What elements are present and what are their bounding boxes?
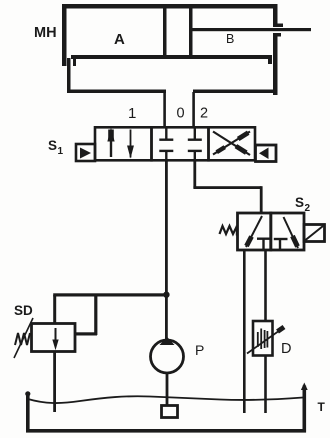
- svg-text:S: S: [48, 138, 57, 153]
- svg-text:T: T: [318, 400, 326, 414]
- svg-text:A: A: [114, 31, 125, 48]
- svg-text:0: 0: [177, 106, 185, 122]
- svg-text:SD: SD: [14, 303, 33, 318]
- svg-text:1: 1: [58, 146, 64, 157]
- svg-text:MH: MH: [34, 25, 57, 41]
- svg-text:1: 1: [128, 105, 136, 122]
- svg-text:2: 2: [305, 203, 311, 214]
- svg-text:2: 2: [200, 106, 208, 122]
- svg-text:B: B: [226, 32, 234, 46]
- svg-text:S: S: [295, 195, 304, 210]
- svg-text:P: P: [195, 342, 204, 358]
- svg-text:D: D: [281, 341, 291, 357]
